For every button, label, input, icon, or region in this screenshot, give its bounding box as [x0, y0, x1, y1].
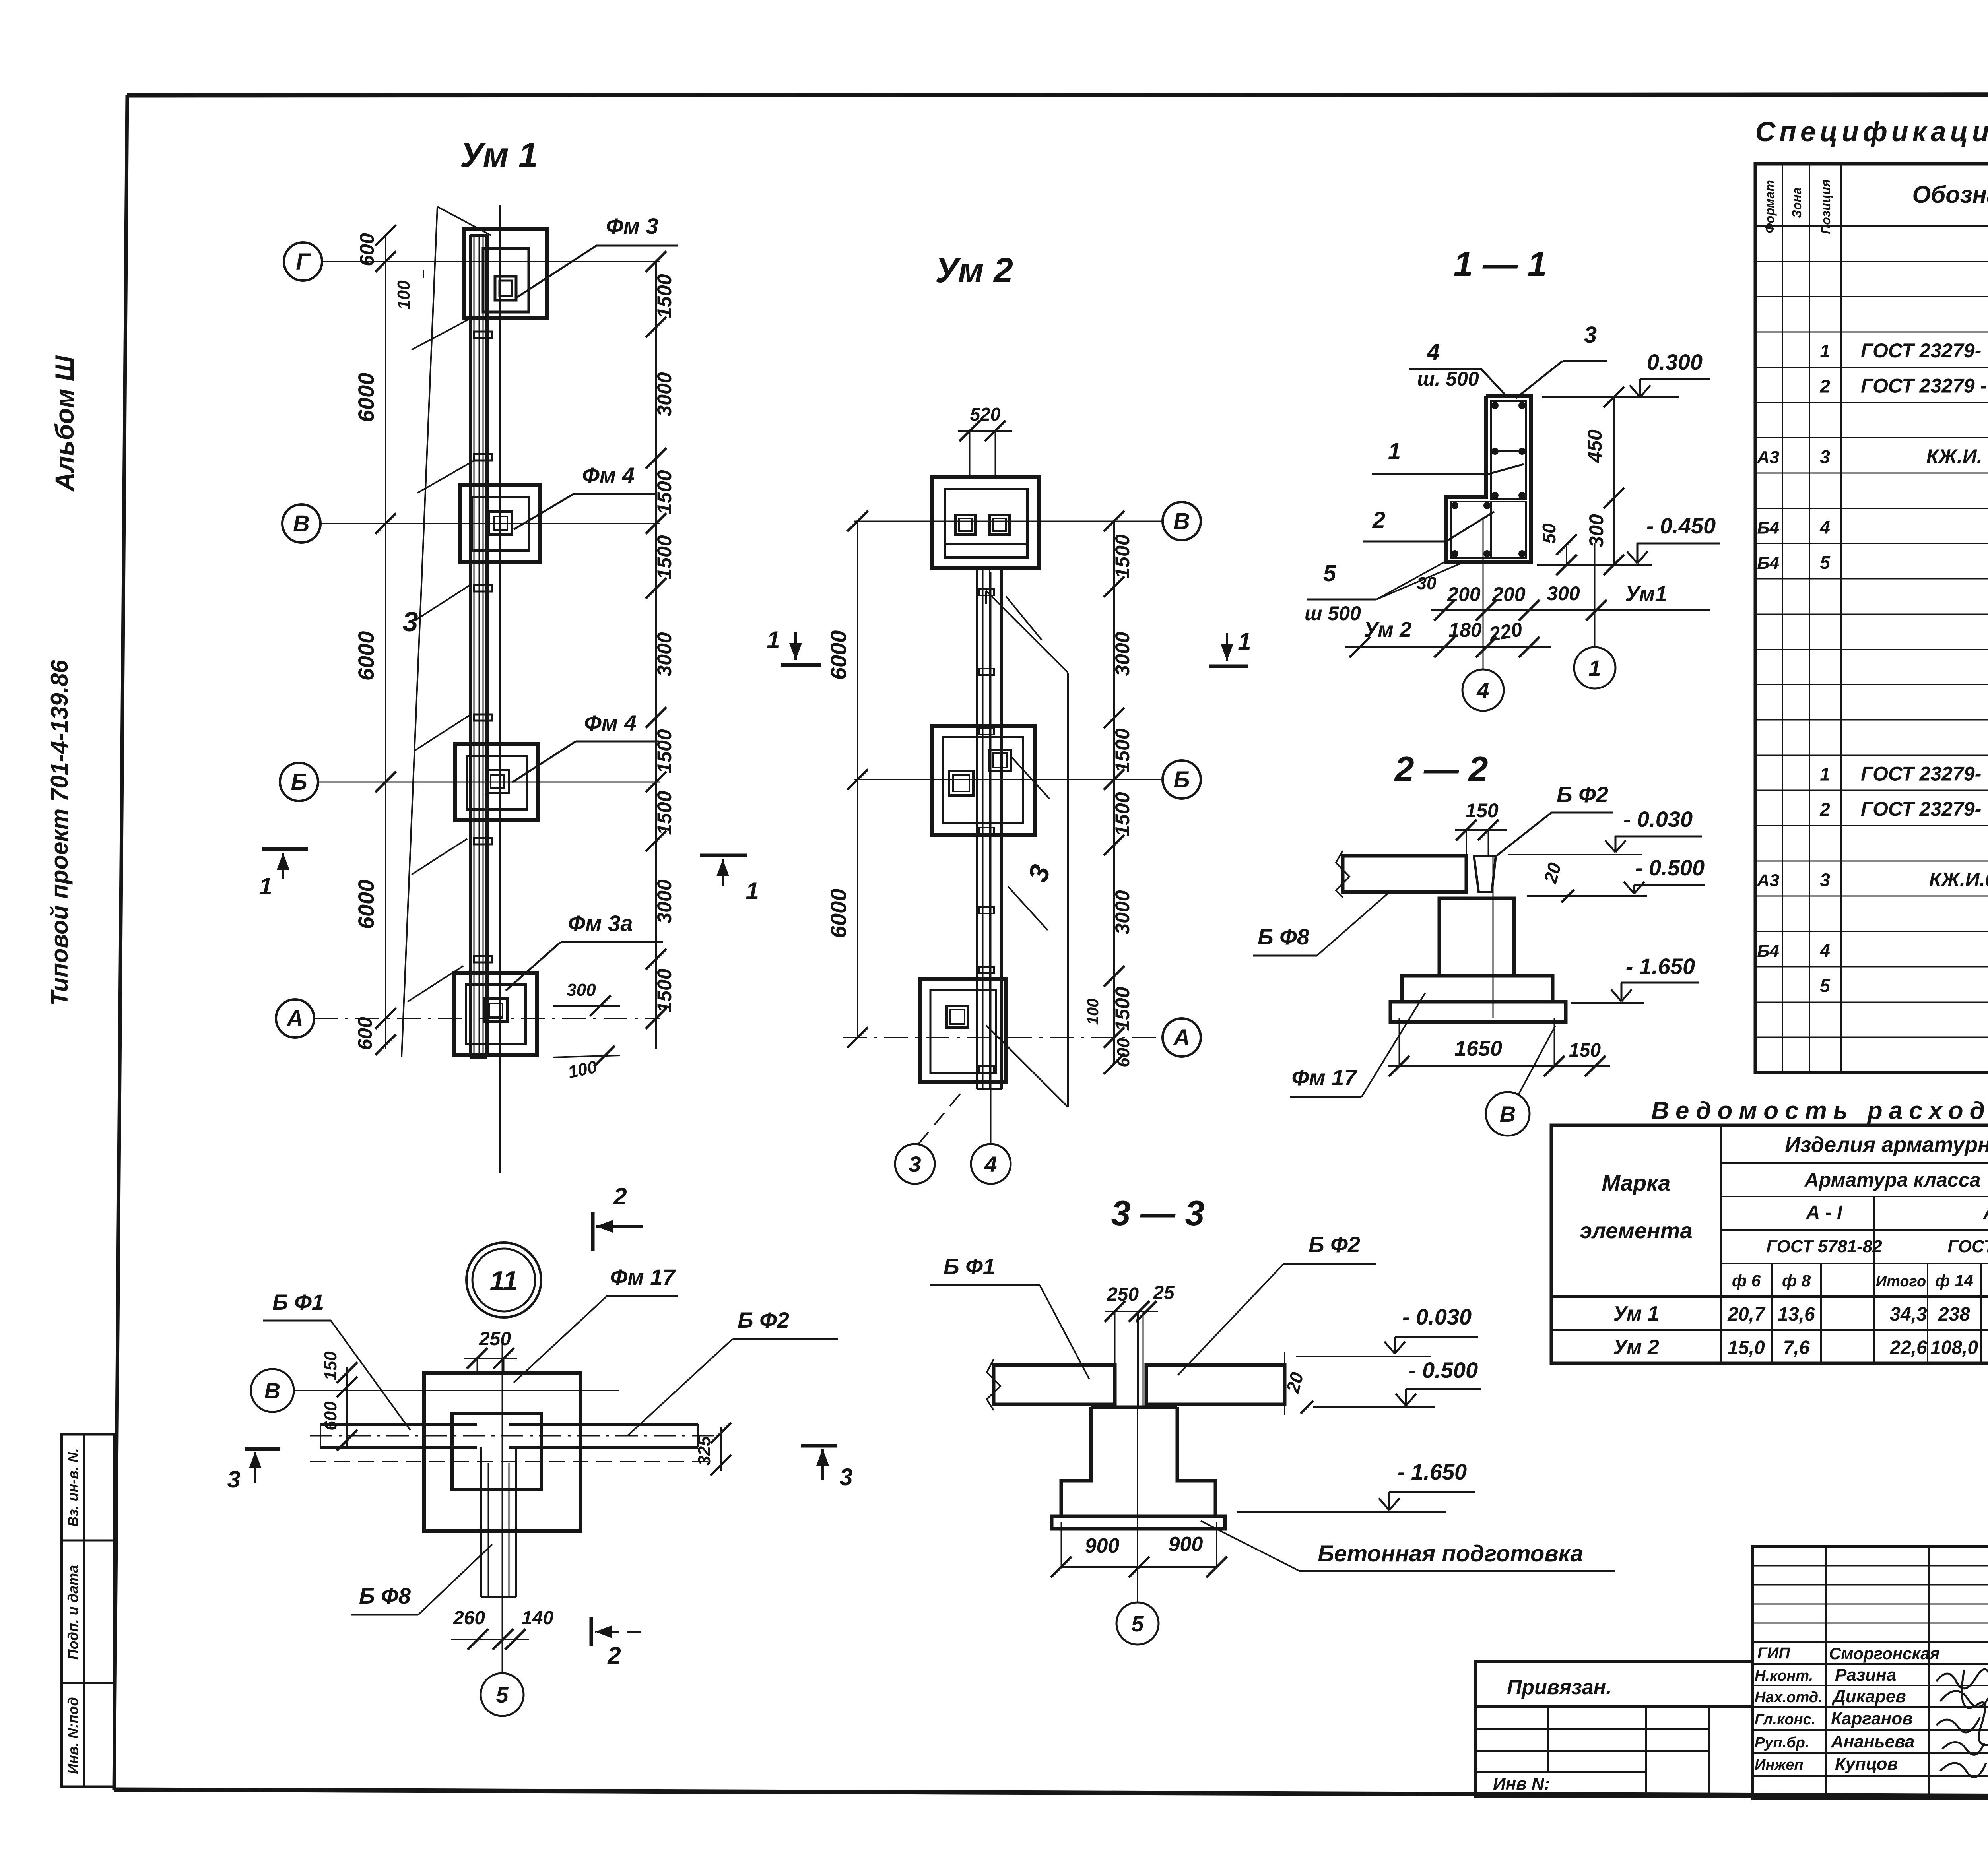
svg-text:Б Ф8: Б Ф8	[1258, 924, 1310, 949]
svg-text:900: 900	[1085, 1534, 1120, 1557]
svg-text:0.300: 0.300	[1647, 349, 1703, 374]
axis circle А	[276, 999, 314, 1038]
svg-text:ГОСТ 23279- 78: ГОСТ 23279- 78	[1861, 339, 1988, 362]
svg-text:Изделия арматурные: Изделия арматурные	[1785, 1133, 1988, 1157]
bottom plate 3-3	[1052, 1516, 1225, 1529]
svg-text:Ананьева: Ананьева	[1831, 1732, 1914, 1751]
svg-text:Арматура класса: Арматура класса	[1804, 1169, 1981, 1191]
svg-text:2 — 2: 2 — 2	[1394, 749, 1488, 789]
svg-text:6000: 6000	[353, 880, 379, 929]
svg-text:Позиция: Позиция	[1819, 179, 1833, 234]
svg-text:1 — 1: 1 — 1	[1454, 244, 1547, 284]
pedestal 3-3	[1061, 1407, 1215, 1516]
svg-text:Руп.бр.: Руп.бр.	[1755, 1734, 1809, 1751]
svg-text:4: 4	[1476, 678, 1489, 703]
svg-text:Зона: Зона	[1790, 187, 1804, 218]
svg-text:200: 200	[1447, 583, 1481, 605]
svg-text:Ум 2: Ум 2	[935, 250, 1013, 290]
svg-text:1: 1	[1820, 341, 1830, 361]
svg-text:5: 5	[1820, 975, 1831, 996]
svg-text:150: 150	[1569, 1040, 1601, 1061]
svg-text:Фм 17: Фм 17	[610, 1264, 676, 1290]
Um1 monolithic strip	[469, 235, 472, 1057]
svg-text:3: 3	[227, 1466, 240, 1493]
svg-text:3: 3	[403, 606, 418, 637]
svg-text:В: В	[1173, 508, 1190, 534]
svg-text:ф 6: ф 6	[1732, 1271, 1761, 1290]
axis circle В Um2	[1163, 502, 1201, 540]
axis circle 5 3-3	[1116, 1602, 1159, 1645]
svg-text:ГОСТ 23279 -78: ГОСТ 23279 -78	[1861, 375, 1988, 397]
svg-text:150: 150	[321, 1351, 340, 1381]
svg-text:- 1.650: - 1.650	[1626, 954, 1695, 979]
section 1-1 wall outline	[1446, 396, 1531, 562]
node pad outer square	[424, 1373, 580, 1531]
svg-text:Спецификация элементов фунда: Спецификация элементов фундаментов	[1755, 116, 1988, 147]
axis circle Б	[280, 763, 318, 801]
Um2 monolithic strip	[976, 568, 978, 1089]
svg-text:50: 50	[1539, 523, 1559, 544]
section mark 3 left	[245, 1447, 280, 1451]
svg-text:- 1.650: - 1.650	[1398, 1459, 1467, 1484]
axis line А Um2 dash-dot	[843, 1037, 1163, 1038]
svg-text:2: 2	[1819, 376, 1830, 397]
svg-text:В: В	[1500, 1102, 1516, 1127]
svg-text:520: 520	[970, 404, 1001, 425]
slab БФ8 in section 2-2	[1343, 856, 1466, 892]
svg-text:ГОСТ 23279- 78: ГОСТ 23279- 78	[1861, 798, 1988, 820]
svg-text:100: 100	[566, 1057, 599, 1082]
svg-text:Нах.отд.: Нах.отд.	[1755, 1689, 1823, 1706]
axis line В node	[294, 1390, 619, 1391]
svg-text:В: В	[293, 511, 310, 537]
svg-text:- 0.500: - 0.500	[1409, 1358, 1478, 1383]
svg-text:Б Ф1: Б Ф1	[944, 1254, 995, 1279]
section mark 2 top	[591, 1212, 595, 1251]
section mark 1 left	[262, 847, 308, 851]
svg-text:Бетонная подготовка: Бетонная подготовка	[1318, 1541, 1583, 1567]
svg-text:5: 5	[1131, 1611, 1144, 1636]
pad Фм4 at В	[460, 485, 540, 562]
column lines between slabs 3-3	[1138, 1311, 1139, 1407]
svg-text:Типовой проект 701-4-139.86: Типовой проект 701-4-139.86	[46, 660, 73, 1006]
svg-text:ГОСТ 5781-82: ГОСТ 5781-82	[1947, 1237, 1988, 1256]
section 1-1 bottom dim line Ум1	[1431, 609, 1710, 611]
svg-text:3000: 3000	[653, 632, 676, 676]
axis circle 1 below 1-1	[1574, 647, 1615, 688]
strip embeds Um2	[979, 589, 994, 595]
svg-text:6000: 6000	[353, 631, 379, 681]
svg-text:5: 5	[1323, 560, 1336, 586]
svg-text:1500: 1500	[653, 535, 676, 579]
title block signatures	[1936, 1669, 1988, 1777]
svg-text:250: 250	[479, 1328, 511, 1350]
svg-text:250: 250	[1107, 1284, 1139, 1305]
svg-text:Карганов: Карганов	[1831, 1709, 1913, 1728]
rebar dots	[1491, 402, 1499, 409]
svg-text:3: 3	[1820, 446, 1830, 467]
node left dim 150-600	[346, 1367, 348, 1447]
Um2 right dimension chain	[1113, 521, 1115, 1064]
svg-text:А3: А3	[1757, 448, 1779, 467]
svg-text:Купцов: Купцов	[1835, 1754, 1898, 1774]
svg-text:25: 25	[1153, 1282, 1175, 1303]
svg-text:Разина: Разина	[1835, 1665, 1896, 1685]
svg-text:Итого: Итого	[1876, 1273, 1926, 1290]
Um2 left dimension line	[857, 521, 858, 1038]
wedge БФ2 cross-section	[1474, 856, 1496, 892]
dim 450-300 vertical	[1613, 397, 1615, 565]
svg-text:100: 100	[394, 280, 414, 310]
svg-text:3 — 3: 3 — 3	[1111, 1193, 1205, 1233]
svg-text:450: 450	[1584, 429, 1606, 463]
pad Б Um2	[932, 726, 1035, 835]
svg-text:4: 4	[984, 1152, 997, 1177]
svg-text:300: 300	[1547, 582, 1580, 605]
svg-text:КЖ.И. 053-01: КЖ.И. 053-01	[1926, 445, 1988, 467]
svg-text:1: 1	[1238, 628, 1251, 655]
svg-text:1: 1	[259, 873, 272, 900]
svg-text:А3: А3	[1757, 871, 1779, 890]
node panel centerline dash-dot	[310, 1435, 716, 1437]
right slab 3-3	[1146, 1365, 1285, 1404]
node inner square	[452, 1414, 541, 1490]
node 11 double circle	[466, 1243, 541, 1317]
axis line Г	[322, 261, 660, 262]
svg-text:- 0.500: - 0.500	[1635, 855, 1705, 880]
svg-text:Фм 3: Фм 3	[606, 213, 658, 239]
svg-text:А: А	[1173, 1025, 1190, 1051]
svg-text:Б4: Б4	[1757, 553, 1779, 573]
trench diagonals Um2	[1006, 596, 1042, 640]
Um1 right dimension line	[655, 262, 657, 1049]
svg-text:6000: 6000	[826, 630, 851, 680]
svg-text:1500: 1500	[653, 791, 676, 835]
svg-text:Фм 4: Фм 4	[584, 710, 637, 735]
svg-text:элемента: элемента	[1580, 1218, 1692, 1243]
svg-text:ф 14: ф 14	[1935, 1271, 1973, 1290]
axis line Б Um2	[854, 779, 1163, 780]
svg-text:3000: 3000	[1111, 890, 1134, 934]
svg-text:Марка: Марка	[1602, 1170, 1671, 1195]
trench diagonals	[412, 318, 471, 350]
svg-text:ф 8: ф 8	[1782, 1271, 1811, 1290]
svg-text:Б Ф8: Б Ф8	[359, 1583, 411, 1608]
svg-text:1: 1	[1820, 764, 1830, 784]
svg-text:1500: 1500	[1111, 728, 1134, 772]
axis circle Б Um2	[1163, 760, 1201, 799]
svg-text:Фм 3а: Фм 3а	[568, 911, 633, 936]
svg-text:Б Ф2: Б Ф2	[1557, 782, 1608, 807]
pad В Um2	[932, 477, 1039, 568]
svg-text:3: 3	[1022, 861, 1056, 886]
svg-text:1500: 1500	[653, 968, 676, 1012]
svg-text:1: 1	[745, 878, 759, 904]
svg-text:11: 11	[490, 1266, 518, 1296]
axis circle В below 2-2	[1486, 1092, 1530, 1136]
svg-text:3: 3	[839, 1464, 852, 1490]
svg-text:Ум 2: Ум 2	[1364, 618, 1411, 642]
svg-text:600: 600	[321, 1401, 340, 1431]
pad Фм4 at Б	[455, 744, 538, 820]
svg-text:- 0.030: - 0.030	[1623, 807, 1693, 832]
svg-text:140: 140	[522, 1608, 553, 1629]
centerline 3-3	[1137, 1311, 1138, 1602]
svg-text:1: 1	[1388, 438, 1401, 464]
centerline 2-2	[1493, 856, 1494, 1018]
svg-text:300: 300	[1585, 514, 1607, 547]
svg-text:Инв. N:под: Инв. N:под	[65, 1697, 81, 1774]
svg-text:Инв N:: Инв N:	[1493, 1774, 1550, 1794]
svg-text:Формат: Формат	[1763, 180, 1777, 233]
svg-text:ГОСТ 23279- 78: ГОСТ 23279- 78	[1861, 762, 1988, 785]
svg-text:1500: 1500	[653, 729, 676, 773]
section mark 3 right	[801, 1444, 837, 1448]
node column БФ8	[480, 1447, 482, 1597]
svg-text:100: 100	[1084, 999, 1102, 1025]
section mark 1 right	[700, 854, 747, 857]
axis circle В	[282, 504, 320, 543]
svg-text:- 0.030: - 0.030	[1402, 1304, 1472, 1329]
trench outline Um2	[1067, 673, 1069, 1107]
dim 50	[1566, 545, 1567, 565]
svg-text:6000: 6000	[353, 373, 379, 423]
svg-text:ГИП: ГИП	[1757, 1645, 1790, 1662]
detail circle 4	[971, 1144, 1011, 1184]
Um1 left dimension line	[385, 235, 386, 1049]
svg-text:1500: 1500	[1111, 534, 1134, 578]
axis line В	[320, 523, 660, 524]
svg-text:220: 220	[1487, 618, 1524, 646]
svg-text:150: 150	[1465, 799, 1499, 822]
svg-text:Фм 4: Фм 4	[582, 463, 635, 488]
svg-text:1500: 1500	[1111, 987, 1134, 1031]
node dim 325 right	[720, 1427, 722, 1471]
svg-text:Б Ф1: Б Ф1	[272, 1290, 324, 1315]
section mark 1 down-left	[781, 663, 821, 667]
node floor panel БФ1 left	[320, 1423, 477, 1426]
svg-text:108,0: 108,0	[1930, 1337, 1978, 1358]
svg-text:3000: 3000	[653, 879, 676, 923]
bottom plate 2-2	[1390, 1002, 1566, 1022]
axis circle 5 node	[481, 1673, 524, 1716]
svg-text:1500: 1500	[653, 274, 676, 318]
svg-text:34,3: 34,3	[1890, 1304, 1927, 1325]
steel table grid	[1551, 1125, 1988, 1363]
svg-text:1500: 1500	[653, 470, 676, 514]
small dim 300 bottom Um1	[553, 1005, 620, 1007]
svg-text:А - П: А - П	[1983, 1202, 1988, 1223]
svg-text:200: 200	[1492, 583, 1526, 605]
svg-text:600: 600	[356, 233, 378, 266]
svg-text:4: 4	[1819, 517, 1830, 538]
svg-text:3000: 3000	[1111, 632, 1134, 676]
node floor panel БФ2 right	[509, 1423, 698, 1426]
svg-text:Н.конт.: Н.конт.	[1755, 1668, 1813, 1684]
section 1-1 second dim line Ум2	[1345, 646, 1551, 648]
svg-text:Ум 1: Ум 1	[460, 135, 538, 175]
svg-text:А - I: А - I	[1806, 1202, 1843, 1223]
sheet border frame	[127, 94, 1988, 95]
svg-text:180: 180	[1448, 619, 1482, 641]
svg-text:Г: Г	[296, 249, 311, 275]
svg-text:Ум1: Ум1	[1625, 582, 1667, 606]
left margin stamp boxes	[62, 1434, 114, 1787]
svg-text:5: 5	[496, 1682, 509, 1707]
svg-text:300: 300	[567, 980, 596, 1000]
svg-text:600: 600	[354, 1017, 376, 1050]
svg-text:Гл.конс.: Гл.конс.	[1755, 1711, 1815, 1728]
rebar cage base	[1451, 502, 1526, 558]
svg-text:4: 4	[1427, 339, 1440, 365]
svg-text:Б4: Б4	[1757, 941, 1779, 961]
pad Фм3а at А	[454, 973, 537, 1055]
svg-text:1500: 1500	[1111, 792, 1134, 836]
axis line В Um2	[854, 521, 1163, 522]
svg-text:В: В	[264, 1378, 280, 1403]
svg-text:Ум 2: Ум 2	[1613, 1336, 1659, 1359]
svg-text:6000: 6000	[826, 889, 851, 939]
spec table grid	[1755, 164, 1988, 1072]
strip embed plates МН10	[474, 332, 492, 338]
trench outline Um1	[402, 207, 437, 1057]
svg-text:Б: Б	[291, 769, 307, 795]
svg-text:- 0.450: - 0.450	[1646, 513, 1716, 538]
dims 900 900 3-3	[1061, 1566, 1217, 1568]
svg-text:Подп. и дата: Подп. и дата	[65, 1565, 81, 1660]
rebar cage stem	[1491, 401, 1526, 499]
section mark 2 bottom	[590, 1617, 593, 1646]
svg-text:238: 238	[1938, 1304, 1970, 1325]
axis circle В node	[251, 1369, 294, 1412]
node lower dashed edge	[310, 1461, 716, 1462]
svg-text:Б Ф2: Б Ф2	[1309, 1232, 1360, 1257]
svg-text:30: 30	[1417, 574, 1437, 593]
axis circle 4 below 1-1	[1462, 669, 1504, 711]
svg-text:ГОСТ 5781-82: ГОСТ 5781-82	[1766, 1237, 1882, 1256]
svg-text:Б4: Б4	[1757, 518, 1779, 538]
svg-text:Дикарев: Дикарев	[1831, 1687, 1906, 1706]
pad Фм3 at Г	[464, 229, 547, 318]
svg-text:Б: Б	[1173, 767, 1190, 793]
svg-text:2: 2	[613, 1183, 627, 1210]
svg-text:325: 325	[695, 1436, 714, 1466]
detail circle 3	[895, 1144, 935, 1184]
axis circle А Um2	[1163, 1018, 1201, 1057]
svg-text:Ведомость расхода стали на: Ведомость расхода стали на элемент, кг	[1651, 1097, 1988, 1125]
small dim 100 bottom Um1	[553, 1055, 620, 1057]
svg-text:1650: 1650	[1454, 1037, 1502, 1061]
svg-text:3: 3	[1584, 322, 1597, 348]
node centerline vertical	[502, 1340, 503, 1673]
svg-text:1: 1	[1588, 655, 1601, 681]
svg-text:Ум 1: Ум 1	[1613, 1302, 1659, 1325]
svg-text:А: А	[286, 1006, 303, 1032]
section mark 1 down-right	[1209, 665, 1248, 668]
svg-text:15,0: 15,0	[1728, 1337, 1765, 1358]
svg-text:Фм 17: Фм 17	[1292, 1065, 1358, 1090]
svg-text:1: 1	[767, 626, 780, 653]
svg-text:5: 5	[1820, 552, 1831, 573]
svg-text:4: 4	[1819, 940, 1830, 961]
svg-text:ш 500: ш 500	[1305, 602, 1361, 624]
svg-text:900: 900	[1169, 1533, 1203, 1556]
svg-text:Вз. ин-в. N.: Вз. ин-в. N.	[65, 1448, 81, 1527]
svg-text:КЖ.И.053-01: КЖ.И.053-01	[1929, 869, 1988, 891]
left slab 3-3	[994, 1365, 1115, 1404]
svg-text:22,6: 22,6	[1889, 1337, 1927, 1358]
title block small grid left	[1752, 1547, 1988, 1799]
svg-text:ш. 500: ш. 500	[1417, 368, 1479, 390]
svg-text:260: 260	[453, 1608, 485, 1629]
svg-text:20: 20	[1540, 860, 1565, 886]
svg-text:13,6: 13,6	[1778, 1304, 1815, 1325]
privyazan block	[1475, 1662, 1752, 1796]
svg-text:Обозначение: Обозначение	[1912, 181, 1988, 208]
axis line Б	[318, 782, 660, 783]
svg-text:20,7: 20,7	[1727, 1304, 1766, 1325]
svg-text:2: 2	[607, 1642, 621, 1669]
svg-text:3: 3	[909, 1152, 921, 1177]
svg-text:Альбом Ш: Альбом Ш	[50, 355, 79, 492]
svg-text:600: 600	[1114, 1038, 1133, 1067]
pad А Um2	[920, 979, 1006, 1082]
dim 1650 bottom 2-2	[1388, 1065, 1610, 1067]
svg-text:Привязан.: Привязан.	[1507, 1676, 1612, 1699]
svg-text:2: 2	[1372, 507, 1385, 533]
footing step 2-2	[1402, 976, 1553, 1002]
svg-text:3: 3	[1820, 870, 1830, 890]
axis circle Г	[284, 242, 322, 281]
svg-text:Инжеп: Инжеп	[1755, 1757, 1804, 1773]
svg-text:3000: 3000	[653, 372, 676, 416]
svg-text:Б Ф2: Б Ф2	[738, 1307, 789, 1332]
svg-text:7,6: 7,6	[1783, 1337, 1810, 1358]
axis line А (dash-dot)	[314, 1018, 660, 1019]
svg-text:2: 2	[1819, 799, 1830, 820]
svg-text:Сморгонская: Сморгонская	[1829, 1644, 1939, 1663]
pedestal column 2-2	[1439, 898, 1514, 976]
